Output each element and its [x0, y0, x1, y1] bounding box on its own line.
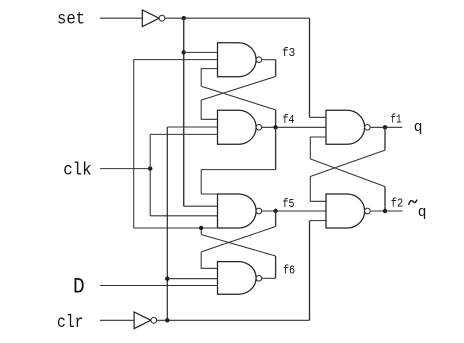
wire f2 out up: [384, 187, 386, 211]
svg-text:set: set: [57, 10, 85, 30]
wire clk riser: [149, 134, 151, 215]
wire f3-f4 cross diagonal B: [201, 86, 275, 110]
nand gate f3: [218, 43, 257, 77]
wire f6 feedback horizontal: [134, 227, 218, 229]
wire q output: [370, 126, 402, 128]
wire f6 output feedback riser to f3: [134, 60, 218, 228]
wire f5-f6 cross diagonal B: [201, 235, 275, 257]
svg-text:clk: clk: [63, 161, 91, 181]
node clk junction: [148, 166, 152, 170]
f2 bubble: [365, 208, 371, 214]
svg-text:f5: f5: [283, 197, 295, 211]
wire to f2 top pin: [310, 177, 326, 202]
node clr' to f6 junction: [165, 277, 169, 281]
wire to f5 bottom edge junction: [200, 228, 202, 235]
wire to f1 bottom pin: [310, 137, 326, 159]
nand gate f5: [218, 194, 257, 228]
wire set input: [100, 17, 142, 19]
wire clk to f5 pin: [150, 215, 217, 217]
f5 bubble: [256, 208, 262, 214]
wire f3 out down: [275, 60, 277, 77]
wire to f6 top pin: [201, 252, 217, 268]
svg-text:q: q: [414, 120, 423, 136]
svg-text:f1: f1: [391, 113, 402, 127]
f1 bubble: [365, 125, 371, 131]
label ~ of ~q: [409, 200, 417, 205]
wire f4 out up: [275, 110, 277, 127]
wire f1-f2 cross diagonal B: [310, 159, 385, 187]
node f2 output junction: [383, 209, 387, 213]
wire clr input: [100, 319, 134, 321]
inverter (clr) triangle: [134, 312, 151, 329]
svg-text:f3: f3: [282, 46, 295, 60]
svg-text:f2: f2: [391, 196, 403, 210]
node set' junction at top: [182, 16, 186, 20]
svg-text:f6: f6: [283, 264, 295, 278]
wire set' to f5 pin: [184, 205, 218, 207]
node set' to f3 junction: [182, 50, 186, 54]
wire to f4 top pin: [201, 100, 217, 119]
wire f3 output stub: [262, 59, 276, 61]
node f5 output junction: [273, 209, 277, 213]
wire to f3 bottom pin: [201, 69, 217, 87]
wire set' to top-right corner: [165, 17, 310, 19]
wire f6 out up: [275, 256, 277, 278]
wire clr' to bottom-right corner: [157, 319, 310, 321]
wire f5-f6 cross diagonal A: [201, 227, 275, 252]
wire clk input: [100, 168, 150, 170]
wire clr' to f4 mid pin: [167, 126, 217, 128]
nand gate f1: [326, 110, 365, 144]
wire f3-f4 cross diagonal A: [201, 77, 275, 101]
wire f1 out down: [384, 127, 386, 150]
node f4 output junction: [273, 125, 277, 129]
wire ~q output: [370, 210, 402, 212]
inverter (set) triangle: [142, 10, 159, 27]
svg-text:clr: clr: [57, 313, 84, 333]
node f6 feedback junction: [199, 226, 203, 230]
svg-text:q: q: [418, 205, 427, 221]
wire f5 output to f2: [262, 210, 326, 212]
nand gate f4: [218, 110, 257, 144]
node f1 output junction: [383, 125, 387, 129]
wire f4 out down path: [275, 127, 277, 169]
f6 bubble: [256, 276, 262, 282]
wire clk to f4 bottom pin: [150, 133, 217, 135]
nand gate f2: [326, 194, 365, 228]
wire f1-f2 cross diagonal A: [310, 150, 385, 176]
f3 bubble: [256, 57, 262, 63]
wire set' to f3 top pin: [184, 51, 218, 53]
wire clr' to f6 mid pin: [167, 278, 217, 280]
svg-text:f4: f4: [283, 113, 295, 127]
wire f6 output stub: [262, 277, 276, 279]
node clr' junction bottom: [165, 318, 169, 322]
f4 bubble: [256, 125, 262, 131]
inverter (clr) bubble: [151, 317, 157, 323]
wire set' riser: [183, 18, 185, 206]
nand gate f6: [218, 262, 257, 295]
wire f4 output to f1: [262, 126, 326, 128]
inverter (set) bubble: [159, 15, 165, 21]
wire D input: [100, 285, 218, 287]
wire clr' riser: [166, 127, 168, 320]
wire f5 out down: [275, 211, 277, 227]
svg-text:D: D: [73, 276, 85, 300]
